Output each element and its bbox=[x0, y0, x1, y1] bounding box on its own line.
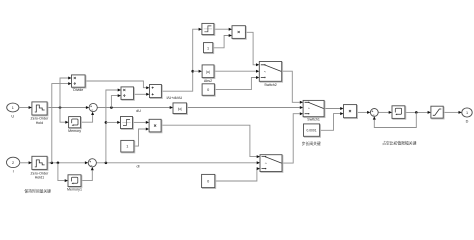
wire Switch1 to Product2 input 1 bbox=[324, 108, 340, 110]
constant 1 (top) bbox=[204, 43, 214, 54]
wire Zero-Order Hold1 to Sum2 bbox=[47, 162, 85, 164]
wire Abs2 to Switch2 input 2 bbox=[214, 70, 256, 72]
svg-text:保持时间量关键: 保持时间量关键 bbox=[24, 189, 51, 194]
svg-text:Switch1: Switch1 bbox=[307, 117, 320, 121]
block Product (sign x 1) bbox=[149, 119, 162, 133]
junction J4 on dI riser bbox=[105, 121, 108, 124]
junction J5 on I rail bbox=[51, 162, 54, 165]
wire Product2 to Sum3 bbox=[357, 111, 368, 113]
svg-text:Divide: Divide bbox=[73, 88, 83, 92]
wire J4 to Sign block bbox=[106, 121, 118, 123]
junction J8 on Memory2 output bbox=[415, 111, 418, 114]
wire J1 down to Memory input bbox=[60, 108, 66, 123]
wire J2 up to Divide1 input 2 bbox=[111, 96, 118, 108]
junction J6 on I rail bbox=[57, 162, 60, 165]
block Saturation bbox=[431, 106, 444, 119]
wire Sum2 (dI) to Switch3 input 2 bbox=[96, 162, 257, 164]
output port 1 (D) bbox=[462, 108, 472, 124]
wire Memory2 to Saturation bbox=[405, 111, 428, 113]
svg-text:|u|: |u| bbox=[206, 70, 210, 74]
svg-text:•›: •› bbox=[308, 106, 310, 110]
svg-text:Hold: Hold bbox=[36, 121, 43, 125]
sum block Sum3 (duty integrator) bbox=[370, 109, 378, 117]
input port 2 (I) bbox=[7, 157, 20, 173]
block Divide1 bbox=[121, 87, 134, 100]
svg-text:dU: dU bbox=[136, 109, 141, 113]
sum block Sum2 (dI) bbox=[88, 159, 96, 167]
svg-text:0: 0 bbox=[207, 88, 209, 92]
wire Constant 0 bottom riser bbox=[215, 172, 257, 181]
constant 0 (bottom) bbox=[202, 174, 216, 188]
svg-text:Memory: Memory bbox=[68, 129, 81, 133]
wire Abs |dU| to Switch1 input 2 bbox=[187, 107, 300, 109]
wire Memory1 to Sum2 bottom bbox=[81, 170, 92, 180]
svg-text:占空比初值限幅关键: 占空比初值限幅关键 bbox=[382, 141, 416, 146]
wire Switch3 to Switch1 input 3 bbox=[282, 114, 300, 163]
wire Sign top to Product top input 1 bbox=[214, 28, 229, 30]
svg-text:|u|: |u| bbox=[178, 107, 182, 111]
svg-text:Zero-Order: Zero-Order bbox=[31, 171, 50, 175]
svg-text:Hold1: Hold1 bbox=[35, 176, 44, 180]
block Memory bbox=[69, 117, 82, 129]
block Product top bbox=[232, 26, 246, 40]
wire Divide1 to Add input 2 bbox=[134, 93, 147, 95]
wire Constant 0 to Switch2 input 3 bbox=[214, 78, 256, 90]
svg-text:Switch2: Switch2 bbox=[264, 83, 277, 87]
block Abs2 bbox=[202, 65, 215, 79]
wire Constant 1 mid to Product mid input 2 bbox=[134, 129, 146, 146]
input port 1 (U) bbox=[7, 103, 19, 118]
block Product2 bbox=[344, 105, 358, 119]
block Zero-Order Hold bbox=[32, 102, 48, 116]
svg-text:U: U bbox=[11, 114, 14, 118]
svg-text:步长阀关键: 步长阀关键 bbox=[302, 141, 321, 146]
wire Zero-Order Hold to Sum1 bbox=[47, 107, 86, 109]
block Sign bbox=[121, 117, 134, 130]
wire Constant 1 to Product top input 2 bbox=[213, 36, 229, 48]
svg-text:I/U+dI/dU: I/U+dI/dU bbox=[166, 96, 182, 100]
wire Switch2 to Switch1 input 1 bbox=[282, 71, 300, 102]
block Switch (bottom) bbox=[260, 155, 283, 173]
wire Sum1 (dU) to Abs bbox=[97, 107, 169, 109]
svg-text:dI: dI bbox=[136, 165, 139, 169]
wire J5 up to Divide input 2 bbox=[52, 84, 69, 163]
svg-text:Zero-Order: Zero-Order bbox=[31, 117, 50, 121]
wire Product top to Switch2 input 1 bbox=[245, 32, 256, 65]
block Abs |dU| bbox=[173, 103, 187, 115]
wire U port to Zero-Order Hold bbox=[19, 107, 29, 109]
sum block Sum1 (dU) bbox=[89, 103, 97, 111]
junction J7 on Add output riser bbox=[191, 70, 194, 73]
svg-text:D: D bbox=[466, 120, 469, 124]
svg-text:1: 1 bbox=[207, 46, 209, 50]
wire Memory to Sum1 bottom bbox=[81, 115, 93, 122]
svg-text:Abs2: Abs2 bbox=[204, 79, 212, 83]
wire J3 up riser dI to Divide1 input 1 bbox=[106, 90, 118, 163]
block Sign1 (top) bbox=[202, 23, 215, 35]
block Memory1 bbox=[68, 175, 82, 188]
svg-text:I: I bbox=[13, 170, 14, 174]
wire Product mid to Switch3 input 1 bbox=[161, 125, 257, 156]
wire Constant 0.0001 to Product2 input 2 bbox=[320, 114, 341, 131]
block Zero-Order Hold1 bbox=[32, 156, 48, 170]
block Switch2 bbox=[259, 62, 282, 83]
svg-text:2: 2 bbox=[12, 161, 14, 165]
wire J6 down to Memory1 input bbox=[58, 163, 65, 181]
svg-text:0: 0 bbox=[207, 180, 209, 184]
block Switch1 bbox=[303, 100, 325, 117]
svg-text:•›: •› bbox=[265, 161, 267, 165]
svg-text:0.0001: 0.0001 bbox=[306, 129, 316, 133]
wire Divide to Add input 1 bbox=[85, 81, 146, 88]
svg-text:1: 1 bbox=[126, 145, 128, 149]
junction J1 on U rail bbox=[59, 106, 62, 109]
wire Add output up to Sign top bbox=[161, 29, 198, 91]
wire Sign to Product mid input 1 bbox=[133, 121, 146, 123]
wire I port to Zero-Order Hold1 bbox=[20, 162, 29, 164]
block Memory2 bbox=[392, 106, 406, 119]
wire J1 up to Divide input 1 bbox=[60, 78, 68, 108]
svg-text:Memory1: Memory1 bbox=[67, 188, 82, 192]
block Divide bbox=[72, 75, 87, 88]
wire riser end to Switch3 input 3 bbox=[256, 169, 258, 172]
wire J7 to Abs2 bbox=[193, 70, 199, 72]
constant 0.0001 bbox=[304, 124, 321, 137]
junction J2 on dU wire bbox=[110, 106, 113, 109]
wire feedback J8 to Sum3 bottom bbox=[374, 112, 416, 127]
svg-text:1: 1 bbox=[12, 106, 14, 110]
svg-text:1: 1 bbox=[466, 111, 468, 115]
svg-text:•›: •› bbox=[264, 70, 266, 74]
constant 0 (top) bbox=[202, 84, 215, 96]
wire Sum3 to Memory2 bbox=[378, 111, 389, 113]
constant 1 (mid) bbox=[121, 140, 135, 153]
junction J3 on dI wire bbox=[105, 162, 108, 165]
wire Saturation to D port bbox=[443, 111, 459, 113]
block Add bbox=[150, 85, 163, 99]
